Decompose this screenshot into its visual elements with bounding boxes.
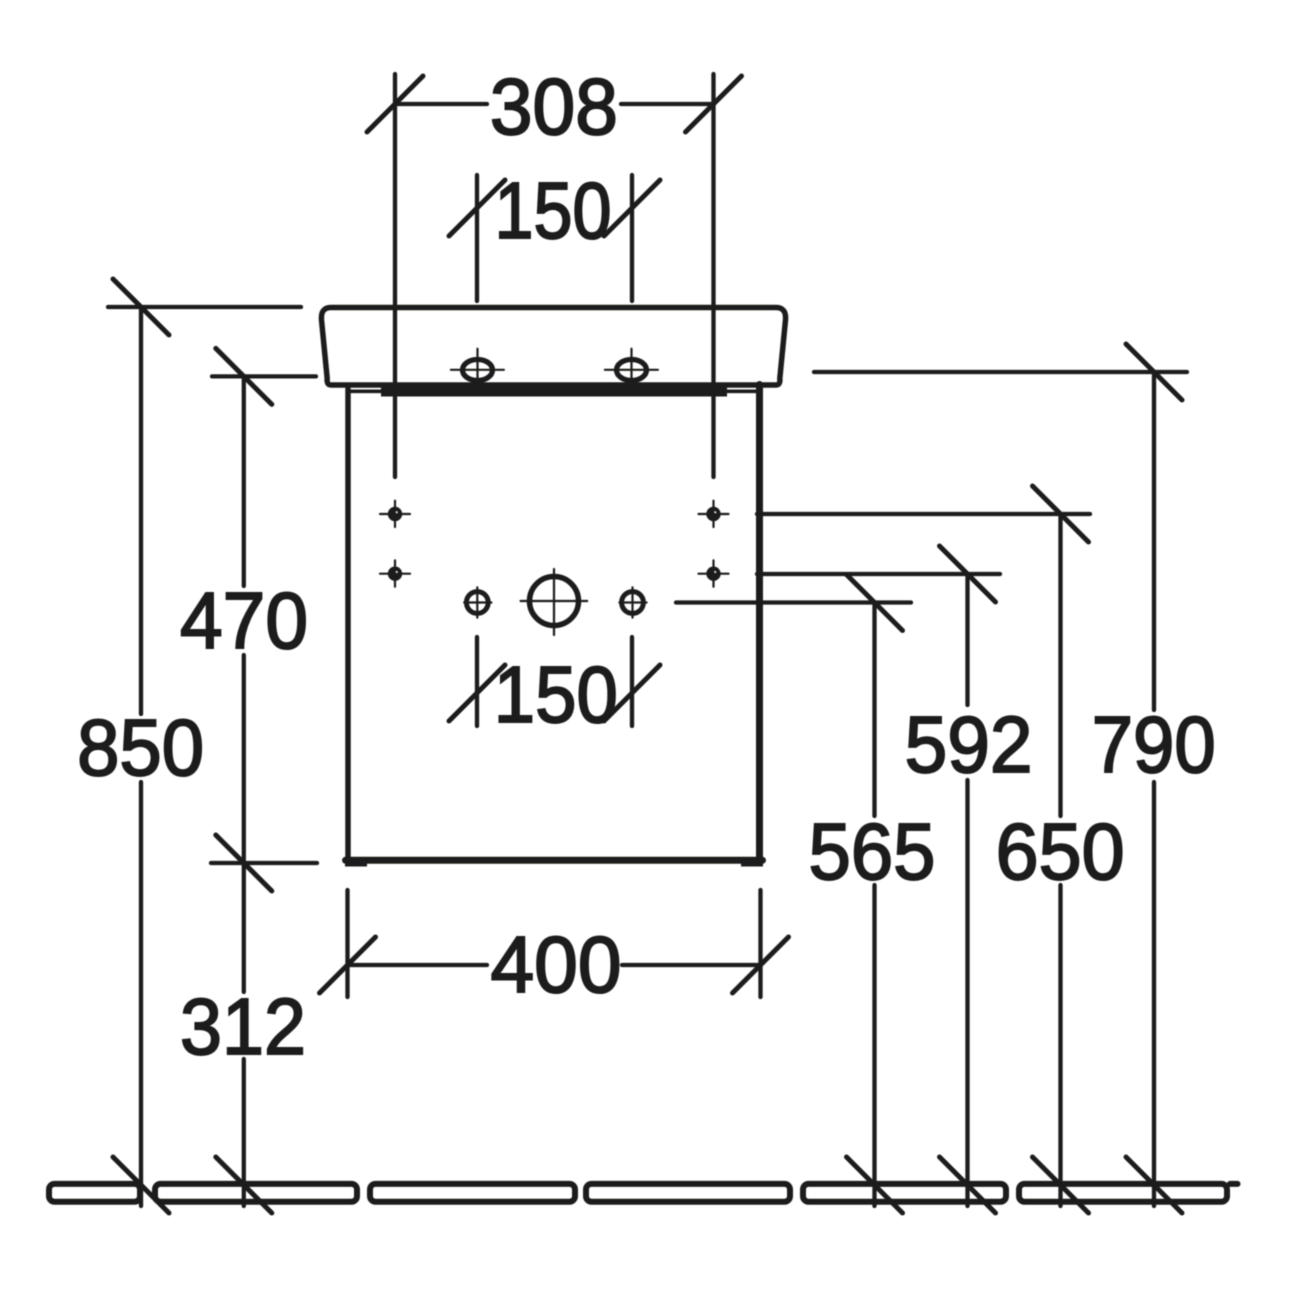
svg-text:150: 150 [495,166,612,255]
dim 470 tick bottom [216,835,272,891]
sink mounting rail [381,385,727,397]
mounting hole bottom-right crosshair [699,573,729,575]
mounting hole bottom-left crosshair [380,573,410,575]
dim 592 tick top [940,546,996,602]
dim 650 dimension line lower segment [1058,885,1062,1206]
faucet hole left [463,360,493,381]
dim 400 tick right [733,937,789,993]
cabinet foot right [741,857,763,867]
dim 150 top extension line right [630,175,634,301]
dim 790 dimension line lower segment [1152,782,1156,1206]
svg-text:592: 592 [905,700,1033,789]
dim 470/312 dimension line middle segment [242,655,246,992]
drain hole center crosshair [521,600,588,602]
dim 790 tick bottom [1126,1157,1182,1213]
dim 850 dimension line upper segment [139,307,143,714]
mounting hole top-right dot [706,507,720,521]
dim 150 top extension line left [475,175,479,301]
svg-text:308: 308 [490,62,618,151]
dim 850 dimension line lower segment [139,782,143,1206]
floor segment 5 [803,1184,1006,1202]
dim 308 dimension line left segment [395,102,487,106]
dim 150 bottom tick right [604,665,660,721]
floor segment 4 [586,1184,790,1202]
cabinet top edge [348,389,760,393]
dim 400 extension line right [758,890,762,997]
dim 565 dimension line lower segment [872,885,876,1206]
dim 470 tick top [216,348,272,404]
dim 790 top extension line [814,370,1187,374]
cabinet foot left [345,857,367,867]
drain hole right small circle [622,592,644,614]
dim 308 extension line right [711,74,715,477]
mounting hole bottom-right dot [706,567,720,581]
dim 592 dimension line upper segment [965,574,969,705]
faucet hole left crosshair vertical [476,349,478,385]
floor segment 6 [1019,1184,1227,1202]
dim 650 dimension line upper segment [1058,514,1062,816]
svg-text:850: 850 [77,703,204,792]
dim 470 top extension line [212,374,316,378]
faucet hole right crosshair horizontal [605,369,658,371]
dim 308 tick left [367,76,423,132]
dim 150 bottom extension line right [630,637,634,726]
mounting hole bottom-left dot [388,567,402,581]
dim 308 extension line left [393,74,397,477]
mounting hole top-right crosshair [699,513,729,515]
svg-text:400: 400 [491,920,622,1009]
dim 790 dimension line upper segment [1152,372,1156,710]
dim 850 tick top [113,279,169,335]
svg-text:650: 650 [996,807,1125,896]
dim 312 tick bottom [216,1157,272,1213]
dim 592 dimension line lower segment [965,780,969,1206]
dim 312 dimension line lower segment [242,1059,246,1206]
dim 650 top extension line [757,512,1090,516]
dim 565 top extension line [676,600,911,604]
dim 470 bottom extension line [211,861,317,865]
mounting hole top-left dot [388,507,402,521]
cabinet body [345,389,351,860]
mounting hole top-left crosshair [380,513,410,515]
sink basin outline [321,308,785,386]
drain hole center big circle [530,577,579,626]
svg-text:150: 150 [494,650,618,739]
dim 565 tick top [847,575,903,631]
dim 565 tick bottom [847,1157,903,1213]
floor segment 2 [155,1184,357,1202]
dim 470 dimension line upper segment [242,376,246,586]
dim 592 top extension line [757,572,1000,576]
svg-text:565: 565 [809,807,936,896]
drain hole left crosshair [464,601,491,603]
cabinet right edge [756,385,763,861]
floor segment 3 [370,1184,575,1202]
svg-text:312: 312 [180,982,306,1071]
faucet hole right [617,360,647,381]
dim 308 dimension line right segment [621,102,714,106]
dim 650 tick bottom [1033,1157,1089,1213]
drain hole right crosshair [619,601,646,603]
dim 400 tick left [320,937,376,993]
svg-text:790: 790 [1092,700,1216,789]
dim 400 dimension line right segment [622,963,761,967]
dim 850 top extension line [108,305,301,309]
dim 308 tick right [686,76,742,132]
dim 150 top tick right [604,180,660,236]
dim 150 top tick left [449,180,505,236]
dim 592 tick bottom [940,1157,996,1213]
svg-text:470: 470 [180,576,308,665]
faucet hole left crosshair horizontal [451,369,504,371]
drain hole left small circle [466,592,488,614]
floor segment 1 [49,1184,140,1202]
dim 790 tick top [1126,344,1182,400]
dim 150 bottom extension line left [475,637,479,726]
dim 850 tick bottom [113,1157,169,1213]
dim 400 dimension line left segment [348,963,488,967]
faucet hole right crosshair vertical [630,349,632,385]
dim 650 tick top [1033,486,1089,542]
dim 565 dimension line upper segment [872,603,876,817]
dim 400 extension line left [345,890,349,997]
dim 150 bottom tick left [449,665,505,721]
floor top line stub right [1230,1181,1238,1187]
cabinet bottom edge [346,857,763,864]
